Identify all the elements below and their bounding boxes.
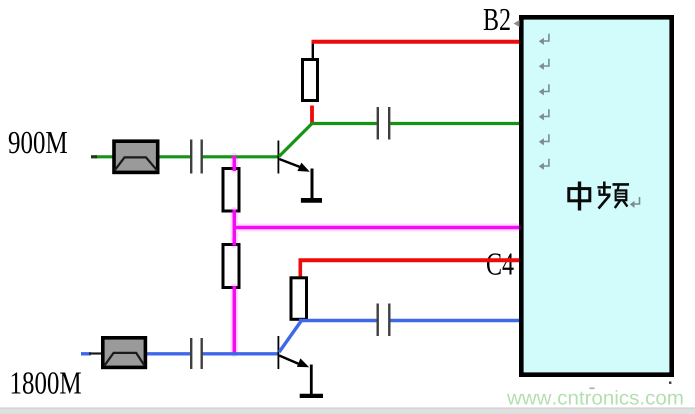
capacitor C5 (Q2 output) <box>378 304 390 337</box>
wire: 900M input (green) <box>95 155 278 158</box>
频 right part 页 <box>613 183 630 186</box>
label 900M <box>9 132 67 154</box>
watermark www.cntronics.com <box>507 390 683 405</box>
capacitor C1 <box>191 140 202 174</box>
SAW filter FL1 <box>114 141 158 172</box>
resistor R1 <box>303 42 318 125</box>
SAW filter FL2 <box>103 338 146 368</box>
label 1800M <box>12 372 81 394</box>
pin label C4 <box>487 253 514 275</box>
resistor R4 <box>291 259 307 320</box>
resistor R3 <box>223 245 239 288</box>
U1 return mark after 中频 <box>630 197 640 208</box>
ground (Q2 emitter) <box>300 365 323 396</box>
wire: Q2 output (blue) <box>299 319 519 322</box>
中 <box>569 189 590 201</box>
900M input lead (dark tip) <box>91 155 97 158</box>
IF block U1 (中频 box) <box>521 17 671 374</box>
wire: Vcc bottom (red) <box>299 258 520 262</box>
wire: bias network magenta glow <box>234 157 518 353</box>
small gray mark after B2 <box>514 20 520 27</box>
stray speck below U1 corner <box>590 382 672 390</box>
U1 paragraph marks (empty-line returns) <box>539 34 549 170</box>
transistor Q2 <box>278 321 309 370</box>
wire: bias network (magenta) <box>233 156 519 355</box>
wire: Q1 output (green) <box>311 122 520 125</box>
频 left part <box>603 182 606 196</box>
U1 label 中频 (drawn glyphs) <box>569 182 629 211</box>
wire: 1800M input (blue) <box>81 352 278 356</box>
ground (Q1 emitter) <box>301 169 322 201</box>
capacitor C2 <box>378 107 389 140</box>
resistor R2 <box>223 169 239 212</box>
bottom page strip <box>0 408 695 414</box>
capacitor C3 <box>191 338 202 369</box>
wire: Vcc top (red) <box>312 40 520 44</box>
pin label B2 <box>484 9 510 30</box>
transistor Q1 <box>278 124 312 174</box>
